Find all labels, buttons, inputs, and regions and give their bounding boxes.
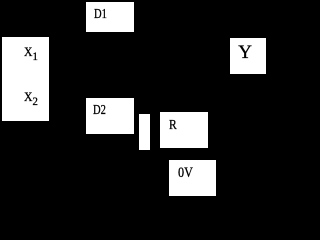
label X2 <box>24 90 38 107</box>
label Y <box>238 43 252 62</box>
gate D2 <box>86 98 134 134</box>
gate D1 <box>86 2 134 32</box>
label D2 <box>93 103 106 117</box>
bar node <box>139 114 150 150</box>
label 0V <box>178 166 193 181</box>
input box X <box>2 37 49 121</box>
ground box 0V <box>169 160 216 196</box>
label R <box>169 119 177 133</box>
resistor box R <box>160 112 208 148</box>
output box Y <box>230 38 266 74</box>
label D1 <box>94 7 107 21</box>
label X1 <box>24 45 38 62</box>
